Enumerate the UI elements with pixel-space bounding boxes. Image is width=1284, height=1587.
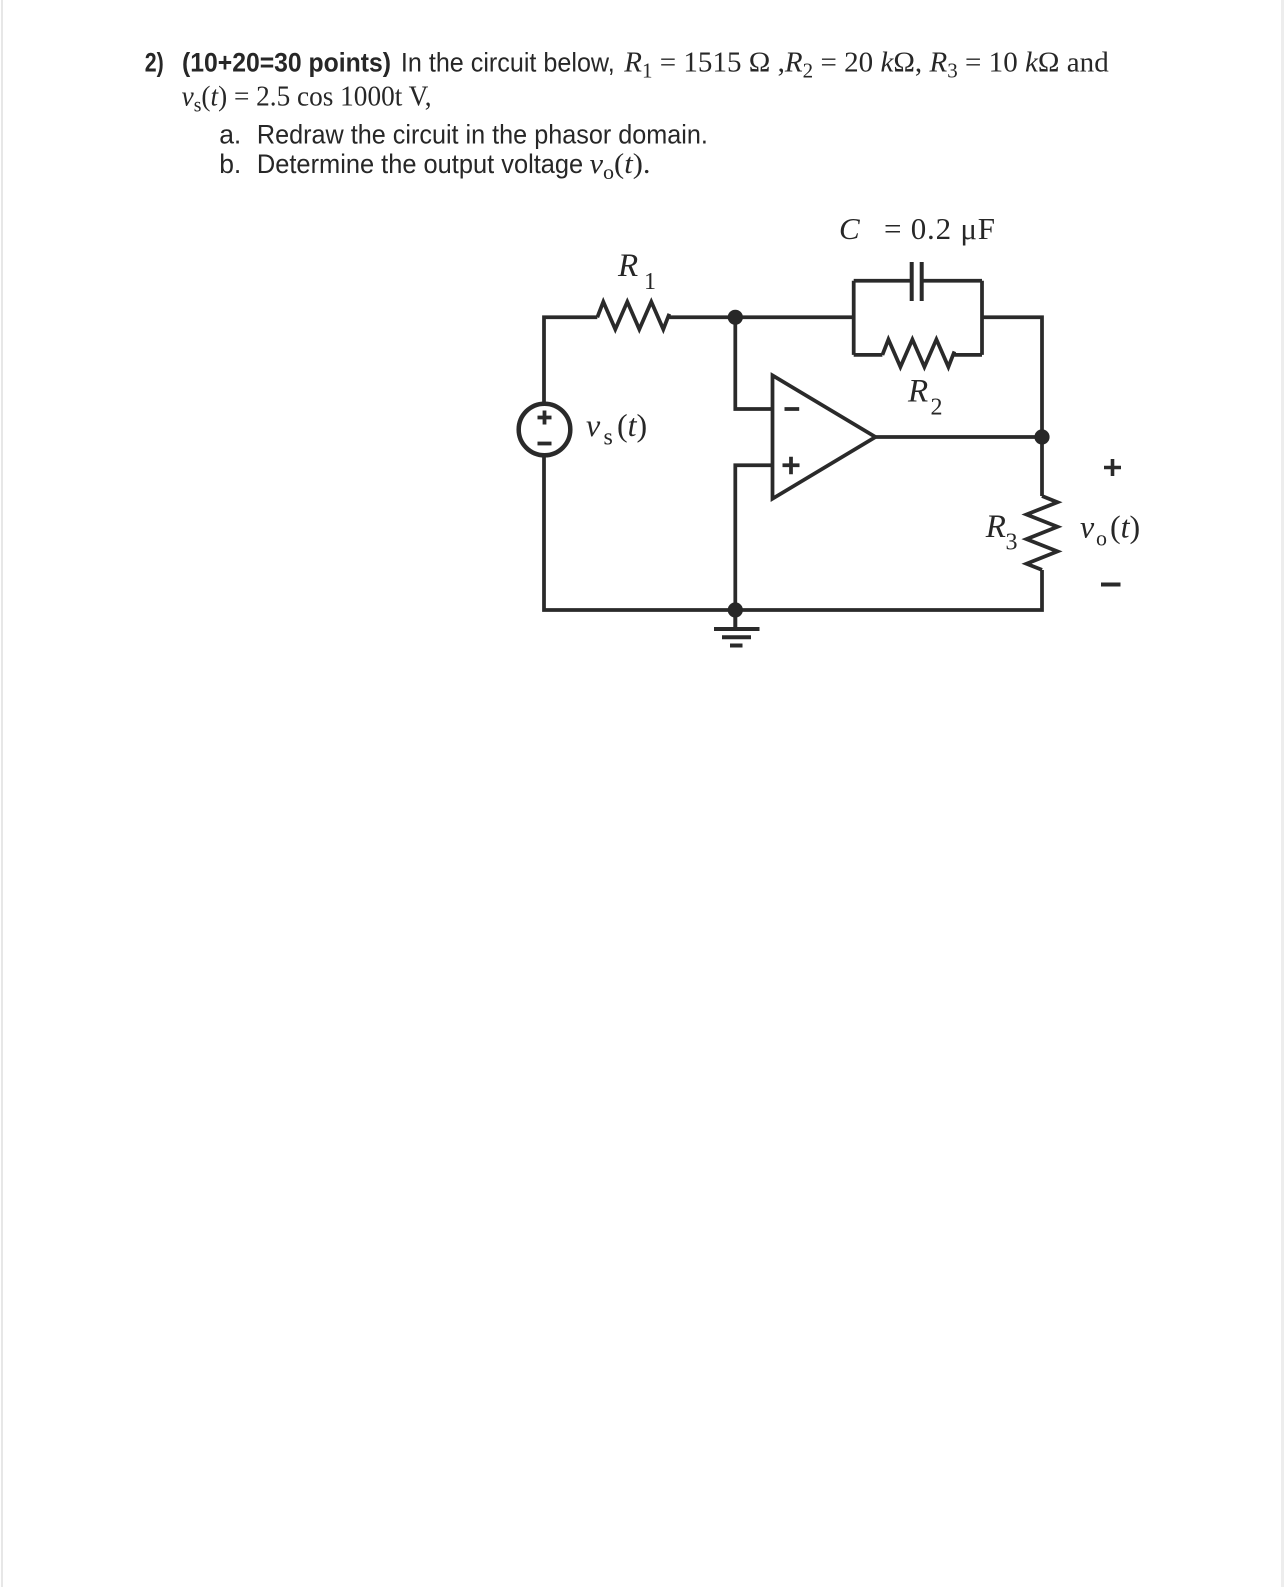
voltage source minus sign xyxy=(538,442,552,446)
svg-text:C: C xyxy=(839,211,860,246)
svg-text:(t): (t) xyxy=(617,407,647,443)
label R1 xyxy=(617,248,656,295)
svg-text:2): 2) xyxy=(145,48,164,78)
resistor R3 xyxy=(1027,496,1058,570)
svg-text:o: o xyxy=(1096,526,1107,551)
svg-text:v: v xyxy=(1080,509,1095,545)
svg-text:= 0.2 μF: = 0.2 μF xyxy=(884,211,995,246)
label C = 0.2 uF xyxy=(839,211,995,246)
output node dot xyxy=(1034,429,1049,444)
problem text line 1 xyxy=(145,47,1109,83)
svg-text:Determine the output voltage: Determine the output voltage xyxy=(257,149,583,179)
wire noninverting input down to ground rail xyxy=(735,465,772,610)
svg-text:v: v xyxy=(586,407,601,443)
ground node dot xyxy=(728,602,743,617)
voltage source plus sign xyxy=(538,411,552,425)
voltage source Vs circle xyxy=(519,404,571,456)
problem text line 2 xyxy=(182,81,432,117)
output plus marker xyxy=(1104,459,1121,476)
svg-text:In the circuit below,: In the circuit below, xyxy=(401,48,615,78)
svg-text:b.: b. xyxy=(219,149,241,179)
feedback box right edge xyxy=(980,281,984,355)
problem text line 3 xyxy=(219,120,708,150)
wire source bottom rail xyxy=(544,457,1042,611)
label vo(t) xyxy=(1080,509,1140,551)
resistor R1 xyxy=(597,302,669,330)
wire output node down to R3 xyxy=(1040,437,1044,496)
svg-text:3: 3 xyxy=(1006,530,1018,556)
output minus marker xyxy=(1101,583,1121,587)
label vs(t) xyxy=(586,407,647,451)
wire left top: source top to R1 xyxy=(544,317,597,402)
wire op-amp output xyxy=(876,435,1043,439)
svg-text:(t): (t) xyxy=(1110,509,1140,545)
feedback box left edge xyxy=(852,281,856,355)
svg-text:R: R xyxy=(617,248,638,284)
wire box exit down to output node xyxy=(982,317,1042,437)
svg-text:R: R xyxy=(907,374,928,410)
resistor R2 xyxy=(882,339,954,367)
problem text line 4 xyxy=(219,148,650,184)
wire node A down to inverting input xyxy=(735,317,772,409)
svg-text:s: s xyxy=(604,425,613,451)
ground symbol xyxy=(714,610,760,646)
svg-text:R: R xyxy=(985,509,1006,545)
svg-text:vs(t) = 2.5 cos 1000t V,: vs(t) = 2.5 cos 1000t V, xyxy=(182,81,432,117)
svg-text:Redraw the circuit in the phas: Redraw the circuit in the phasor domain. xyxy=(257,120,708,150)
feedback box bottom branch wires xyxy=(854,353,982,357)
node A dot xyxy=(728,310,743,325)
feedback box top branch wires xyxy=(854,279,982,283)
svg-text:R1 = 1515 Ω ,R2 = 20 kΩ, R3 =: R1 = 1515 Ω ,R2 = 20 kΩ, R3 = 10 kΩ and xyxy=(623,47,1109,83)
capacitor C plates xyxy=(912,262,922,301)
svg-text:1: 1 xyxy=(644,269,656,295)
svg-text:2: 2 xyxy=(931,395,943,421)
svg-text:a.: a. xyxy=(219,120,241,150)
label R3 xyxy=(985,509,1018,556)
svg-text:(10+20=30 points): (10+20=30 points) xyxy=(182,48,391,78)
op-amp U1 xyxy=(773,375,876,498)
wire R1 to feedback box through node A xyxy=(669,315,853,319)
label R2 xyxy=(907,374,943,421)
svg-text:vo(t).: vo(t). xyxy=(590,148,651,184)
